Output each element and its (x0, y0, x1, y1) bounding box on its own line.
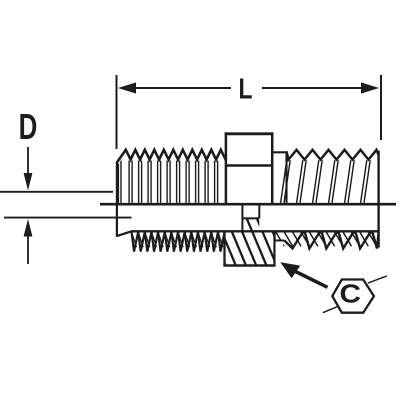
svg-text:L: L (239, 74, 253, 105)
svg-text:C: C (339, 279, 360, 308)
svg-text:D: D (19, 106, 38, 147)
